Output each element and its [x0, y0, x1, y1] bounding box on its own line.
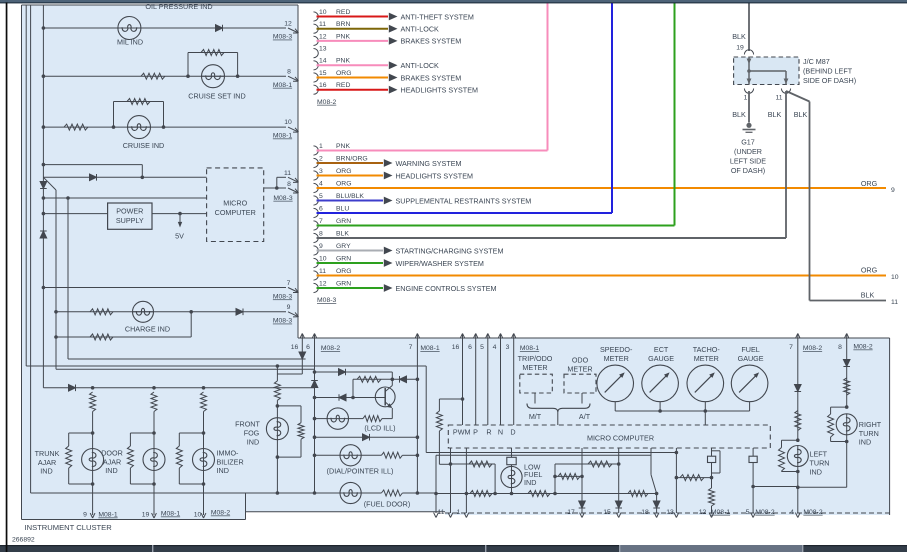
svg-text:11: 11: [891, 299, 898, 306]
svg-text:BLK: BLK: [768, 110, 782, 119]
svg-text:10: 10: [319, 255, 327, 262]
svg-text:GRY: GRY: [336, 243, 351, 250]
svg-text:ODO: ODO: [572, 355, 589, 364]
svg-text:13: 13: [666, 509, 674, 516]
svg-text:SPEEDO-: SPEEDO-: [600, 345, 633, 354]
svg-text:10: 10: [284, 119, 292, 126]
svg-text:RIGHT: RIGHT: [859, 420, 882, 429]
svg-text:2: 2: [319, 155, 323, 162]
svg-text:3: 3: [506, 344, 510, 351]
svg-text:ORG: ORG: [336, 180, 351, 187]
svg-text:M08-3: M08-3: [273, 195, 292, 202]
svg-text:WIPER/WASHER SYSTEM: WIPER/WASHER SYSTEM: [396, 259, 484, 268]
svg-text:M08-3: M08-3: [273, 318, 292, 325]
svg-text:18: 18: [641, 509, 649, 516]
svg-text:M08-1: M08-1: [273, 82, 292, 89]
svg-text:ORG: ORG: [336, 168, 351, 175]
svg-text:OIL PRESSURE IND: OIL PRESSURE IND: [145, 2, 212, 11]
svg-text:16: 16: [452, 344, 460, 351]
svg-text:ANTI-LOCK: ANTI-LOCK: [401, 25, 440, 34]
svg-text:CRUISE IND: CRUISE IND: [123, 141, 165, 150]
svg-text:ANTI-THEFT SYSTEM: ANTI-THEFT SYSTEM: [401, 12, 474, 21]
svg-text:11: 11: [319, 21, 326, 28]
svg-text:IND: IND: [810, 467, 822, 476]
svg-text:METER: METER: [694, 354, 719, 363]
svg-text:R: R: [486, 427, 491, 436]
svg-text:8: 8: [319, 230, 323, 237]
svg-text:M08-2: M08-2: [803, 509, 822, 516]
svg-text:M08-2: M08-2: [321, 345, 340, 352]
svg-text:10: 10: [891, 274, 899, 281]
svg-text:14: 14: [319, 58, 327, 65]
svg-text:POWER: POWER: [116, 207, 143, 216]
svg-text:M08-1: M08-1: [520, 345, 539, 352]
svg-text:17: 17: [567, 509, 575, 516]
svg-text:M08-2: M08-2: [317, 99, 336, 106]
svg-text:4: 4: [790, 509, 794, 516]
svg-text:9: 9: [83, 512, 87, 519]
svg-text:WARNING SYSTEM: WARNING SYSTEM: [396, 159, 462, 168]
svg-text:IND: IND: [105, 466, 117, 475]
svg-text:TACHO-: TACHO-: [693, 345, 721, 354]
svg-text:GRN: GRN: [336, 218, 351, 225]
svg-text:16: 16: [291, 344, 299, 351]
svg-text:GAUGE: GAUGE: [738, 354, 764, 363]
svg-text:METER: METER: [604, 354, 629, 363]
svg-text:ORG: ORG: [336, 70, 351, 77]
svg-text:12: 12: [699, 509, 707, 516]
svg-text:M08-1: M08-1: [711, 509, 730, 516]
svg-text:SIDE OF DASH): SIDE OF DASH): [803, 76, 856, 85]
svg-text:1: 1: [457, 509, 461, 516]
svg-text:TRUNK: TRUNK: [35, 449, 60, 458]
svg-text:RED: RED: [336, 82, 350, 89]
svg-text:BLK: BLK: [732, 32, 746, 41]
svg-text:5: 5: [319, 193, 323, 200]
svg-text:11: 11: [319, 268, 326, 275]
svg-text:FUEL: FUEL: [741, 345, 759, 354]
svg-text:12: 12: [284, 21, 292, 28]
svg-text:STARTING/CHARGING SYSTEM: STARTING/CHARGING SYSTEM: [396, 246, 504, 255]
svg-text:19: 19: [142, 512, 150, 519]
svg-text:M08-1: M08-1: [161, 511, 180, 518]
svg-text:IND: IND: [524, 478, 536, 487]
svg-text:(FUEL DOOR): (FUEL DOOR): [364, 500, 410, 509]
svg-text:M08-2: M08-2: [853, 344, 872, 351]
svg-text:5V: 5V: [175, 232, 184, 241]
svg-text:8: 8: [838, 344, 842, 351]
svg-text:9: 9: [319, 243, 323, 250]
svg-text:9: 9: [287, 304, 291, 311]
svg-text:ECT: ECT: [654, 345, 669, 354]
svg-text:PNK: PNK: [336, 58, 350, 65]
svg-text:MICRO: MICRO: [223, 198, 247, 207]
svg-text:15: 15: [603, 509, 611, 516]
svg-text:GRN: GRN: [336, 280, 351, 287]
svg-text:11: 11: [284, 170, 291, 177]
svg-text:8: 8: [287, 68, 291, 75]
svg-text:OF DASH): OF DASH): [731, 166, 765, 175]
svg-text:METER: METER: [522, 363, 547, 372]
svg-text:TRIP/ODO: TRIP/ODO: [518, 354, 553, 363]
svg-text:D: D: [510, 427, 515, 436]
svg-text:1: 1: [744, 95, 748, 102]
svg-text:BRAKES SYSTEM: BRAKES SYSTEM: [401, 37, 462, 46]
svg-text:266892: 266892: [12, 537, 35, 544]
svg-text:INSTRUMENT CLUSTER: INSTRUMENT CLUSTER: [25, 523, 113, 532]
svg-text:LEFT: LEFT: [810, 450, 828, 459]
svg-text:SUPPLY: SUPPLY: [116, 216, 144, 225]
svg-text:GRN: GRN: [336, 255, 351, 262]
svg-text:BLU/BLK: BLU/BLK: [336, 193, 364, 200]
svg-text:M08-2: M08-2: [211, 510, 230, 517]
svg-text:SUPPLEMENTAL RESTRAINTS SYSTEM: SUPPLEMENTAL RESTRAINTS SYSTEM: [396, 196, 532, 205]
svg-text:PNK: PNK: [336, 143, 350, 150]
svg-text:(DIAL/POINTER ILL): (DIAL/POINTER ILL): [327, 466, 394, 475]
svg-text:7: 7: [287, 280, 291, 287]
svg-text:AJAR: AJAR: [103, 457, 121, 466]
svg-text:GAUGE: GAUGE: [648, 354, 674, 363]
svg-text:6: 6: [468, 344, 472, 351]
svg-text:AJAR: AJAR: [38, 458, 56, 467]
svg-text:M08-3: M08-3: [273, 293, 292, 300]
svg-text:IMMO-: IMMO-: [217, 449, 240, 458]
svg-text:(LCD ILL): (LCD ILL): [364, 423, 395, 432]
svg-text:METER: METER: [567, 364, 592, 373]
svg-text:M08-3: M08-3: [273, 34, 292, 41]
svg-text:BLK: BLK: [794, 110, 808, 119]
svg-text:3: 3: [319, 168, 323, 175]
svg-text:PWM: PWM: [453, 427, 471, 436]
svg-text:CHARGE IND: CHARGE IND: [125, 325, 170, 334]
svg-text:CRUISE SET IND: CRUISE SET IND: [188, 92, 245, 101]
svg-text:M/T: M/T: [529, 412, 542, 421]
svg-text:9: 9: [891, 187, 895, 194]
svg-text:7: 7: [319, 218, 323, 225]
svg-text:HEADLIGHTS SYSTEM: HEADLIGHTS SYSTEM: [401, 86, 478, 95]
svg-text:FOG: FOG: [244, 429, 260, 438]
svg-text:4: 4: [493, 344, 497, 351]
svg-text:BRN/ORG: BRN/ORG: [336, 155, 368, 162]
svg-text:J/C M87: J/C M87: [803, 57, 830, 66]
svg-text:COMPUTER: COMPUTER: [215, 208, 256, 217]
svg-text:BRN: BRN: [336, 21, 350, 28]
svg-text:BLU: BLU: [336, 205, 349, 212]
svg-text:M08-1: M08-1: [420, 345, 439, 352]
svg-text:16: 16: [319, 82, 327, 89]
svg-text:6: 6: [306, 344, 310, 351]
svg-text:(BEHIND LEFT: (BEHIND LEFT: [803, 67, 853, 76]
svg-text:7: 7: [409, 344, 413, 351]
svg-text:BLK: BLK: [861, 291, 875, 300]
svg-text:BLK: BLK: [732, 110, 746, 119]
svg-text:IND: IND: [217, 466, 229, 475]
svg-text:7: 7: [789, 344, 793, 351]
svg-text:M08-2: M08-2: [803, 345, 822, 352]
svg-text:6: 6: [319, 205, 323, 212]
svg-text:PNK: PNK: [336, 33, 350, 40]
svg-text:ANTI-LOCK: ANTI-LOCK: [401, 61, 440, 70]
svg-text:10: 10: [319, 9, 327, 16]
svg-text:IND: IND: [40, 467, 52, 476]
svg-text:MIL IND: MIL IND: [117, 38, 143, 47]
svg-text:BILIZER: BILIZER: [217, 457, 244, 466]
svg-text:5: 5: [480, 344, 484, 351]
svg-text:M08-1: M08-1: [98, 512, 117, 519]
svg-text:N: N: [498, 427, 503, 436]
svg-text:M08-3: M08-3: [317, 297, 336, 304]
svg-text:12: 12: [319, 33, 327, 40]
svg-text:8: 8: [287, 181, 291, 188]
svg-text:BRAKES SYSTEM: BRAKES SYSTEM: [401, 73, 462, 82]
svg-text:(UNDER: (UNDER: [734, 147, 762, 156]
svg-text:MICRO COMPUTER: MICRO COMPUTER: [587, 433, 654, 442]
svg-text:FRONT: FRONT: [235, 420, 260, 429]
svg-text:RED: RED: [336, 9, 350, 16]
svg-text:LEFT SIDE: LEFT SIDE: [730, 157, 766, 166]
svg-text:IND: IND: [859, 438, 871, 447]
svg-text:P: P: [473, 427, 478, 436]
svg-text:M08-1: M08-1: [273, 133, 292, 140]
svg-text:5: 5: [746, 509, 750, 516]
svg-text:G17: G17: [741, 138, 755, 147]
svg-text:DOOR: DOOR: [101, 449, 123, 458]
svg-text:BLK: BLK: [336, 230, 349, 237]
svg-text:11: 11: [775, 95, 782, 102]
svg-text:IND: IND: [247, 438, 259, 447]
svg-text:11: 11: [437, 509, 444, 516]
svg-text:12: 12: [319, 280, 327, 287]
svg-text:4: 4: [319, 180, 323, 187]
svg-text:13: 13: [319, 46, 327, 53]
svg-text:ORG: ORG: [861, 266, 878, 275]
svg-text:ORG: ORG: [336, 268, 351, 275]
svg-text:M08-2: M08-2: [755, 509, 774, 516]
svg-text:ORG: ORG: [861, 179, 878, 188]
svg-text:ENGINE CONTROLS SYSTEM: ENGINE CONTROLS SYSTEM: [396, 284, 497, 293]
svg-text:10: 10: [194, 512, 202, 519]
svg-text:TURN: TURN: [859, 429, 879, 438]
svg-text:A/T: A/T: [579, 412, 591, 421]
svg-text:15: 15: [319, 70, 327, 77]
svg-text:19: 19: [736, 45, 744, 52]
svg-text:TURN: TURN: [810, 459, 830, 468]
svg-text:HEADLIGHTS SYSTEM: HEADLIGHTS SYSTEM: [396, 171, 473, 180]
svg-text:1: 1: [319, 143, 323, 150]
